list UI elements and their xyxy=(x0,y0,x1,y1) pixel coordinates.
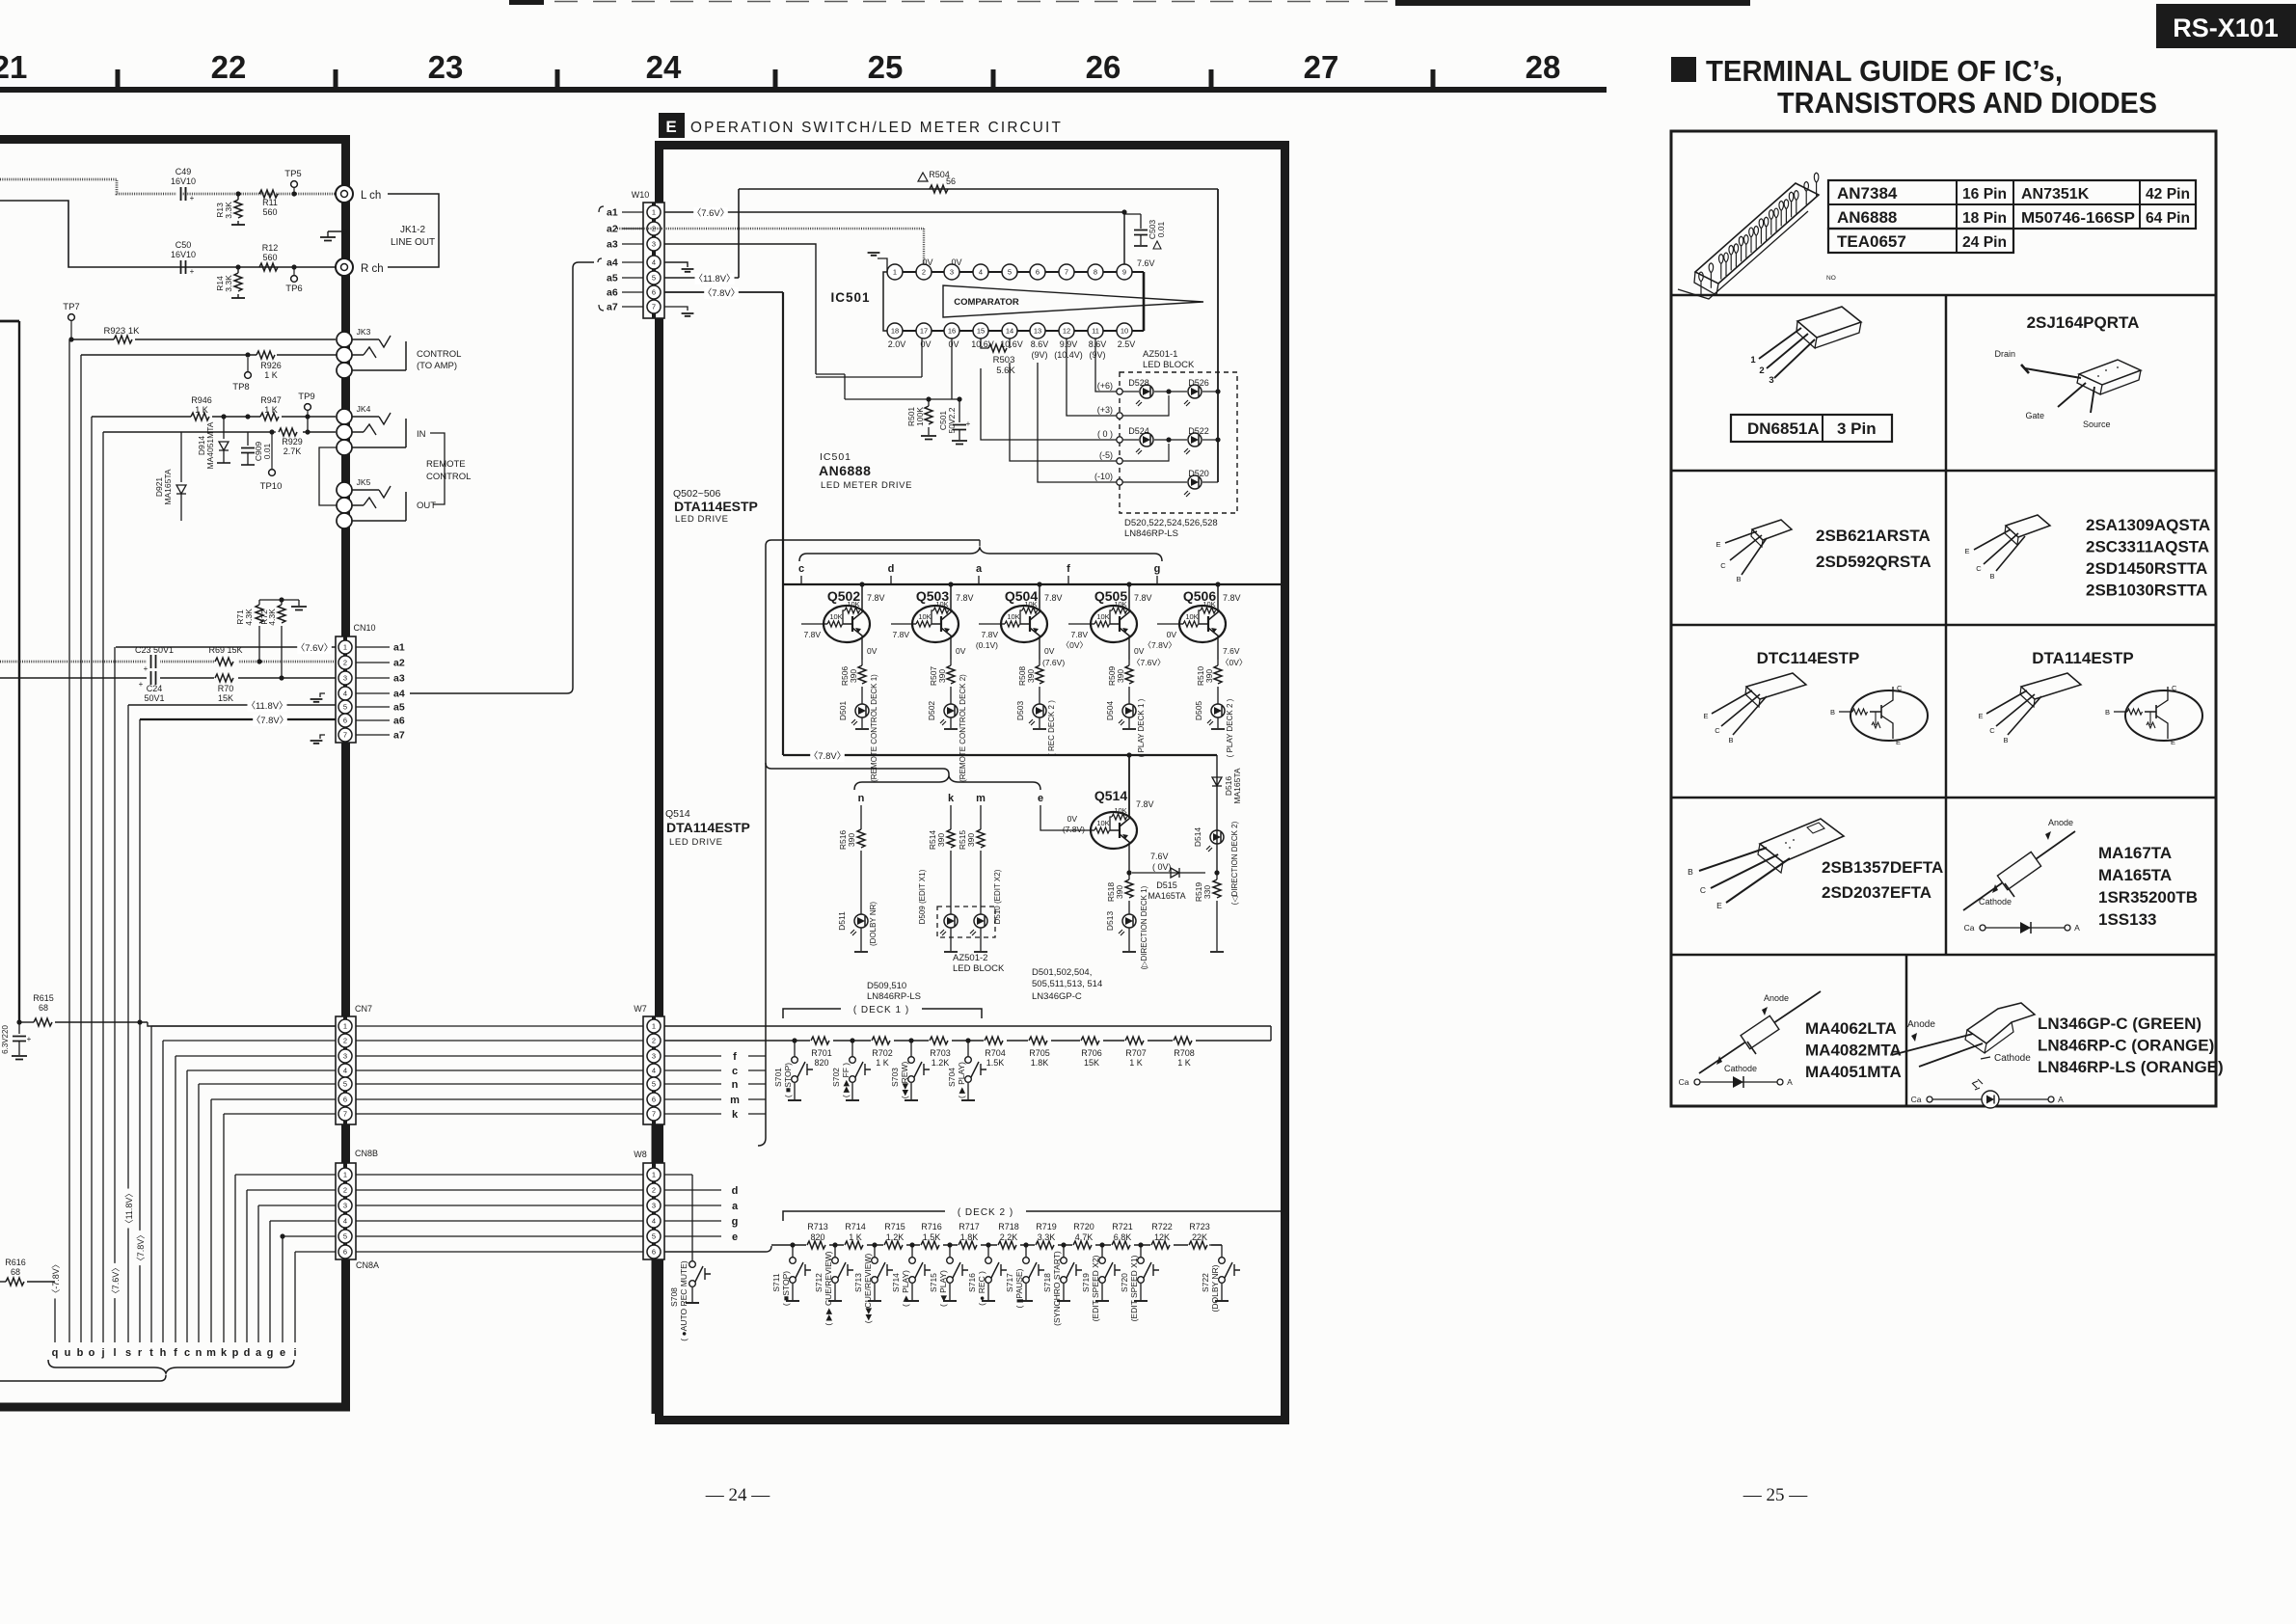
ground near line out xyxy=(320,229,347,240)
svg-text:D504: D504 xyxy=(1105,701,1115,721)
svg-text:( ▮PAUSE): ( ▮PAUSE) xyxy=(1014,1268,1024,1308)
resistor R923 xyxy=(104,326,141,343)
wire W8 heavy down xyxy=(652,1259,657,1414)
IC IC501 AN6888 comparator xyxy=(830,264,1203,338)
wire a3 to CN10 pin3 xyxy=(0,677,337,679)
svg-text:1: 1 xyxy=(343,643,347,652)
svg-text:11: 11 xyxy=(1092,327,1099,336)
LED D504 xyxy=(1105,698,1146,757)
svg-text:23: 23 xyxy=(428,49,464,85)
svg-text:c: c xyxy=(798,563,804,575)
svg-text:16V10: 16V10 xyxy=(171,176,196,186)
resistor R72 xyxy=(259,600,285,678)
svg-text:3.3K: 3.3K xyxy=(1038,1232,1056,1242)
svg-text:7.8V: 7.8V xyxy=(1071,630,1089,639)
svg-text:7.8V: 7.8V xyxy=(1134,593,1152,603)
svg-text:S712: S712 xyxy=(814,1273,824,1292)
svg-text:0V: 0V xyxy=(1067,814,1078,824)
svg-text:( PLAY DECK 2 ): ( PLAY DECK 2 ) xyxy=(1226,698,1234,757)
svg-text:Cathode: Cathode xyxy=(1724,1064,1757,1073)
svg-text:1 K: 1 K xyxy=(1129,1058,1143,1068)
svg-text:C: C xyxy=(1989,726,1995,735)
DIP IC package drawing xyxy=(1678,173,1836,299)
svg-text:560: 560 xyxy=(262,253,277,262)
svg-text:(◀◀CUE/REVIEW): (◀◀CUE/REVIEW) xyxy=(863,1254,873,1324)
letter row q-i xyxy=(52,1347,297,1359)
resistor R926 xyxy=(245,351,281,380)
resistor R715 xyxy=(883,1222,906,1250)
svg-text:12K: 12K xyxy=(1154,1232,1170,1242)
svg-text:22K: 22K xyxy=(1192,1232,1207,1242)
resistor R69 xyxy=(208,645,261,666)
svg-text:R12: R12 xyxy=(262,243,279,253)
svg-text:AZ501-2: AZ501-2 xyxy=(953,953,987,963)
svg-text:10K: 10K xyxy=(918,612,931,621)
wire R71 R72 top with ground xyxy=(259,597,307,609)
svg-text:B: B xyxy=(1728,736,1733,744)
svg-text:LN846RP-LS (ORANGE): LN846RP-LS (ORANGE) xyxy=(2038,1058,2224,1076)
voltage callouts on harness xyxy=(51,1189,147,1299)
svg-text:B: B xyxy=(1989,572,1994,581)
svg-text:B: B xyxy=(1688,867,1693,877)
svg-text:7.6V: 7.6V xyxy=(1137,258,1155,268)
svg-text:R718: R718 xyxy=(998,1222,1019,1232)
svg-text:(10.4V): (10.4V) xyxy=(1054,350,1083,360)
svg-text:〈11.8V〉: 〈11.8V〉 xyxy=(246,701,287,712)
transistor Q504 xyxy=(976,582,1065,667)
svg-text:LN346GP-C (GREEN): LN346GP-C (GREEN) xyxy=(2038,1015,2201,1033)
svg-text:MA4051MTA: MA4051MTA xyxy=(1805,1063,1902,1081)
svg-text:22: 22 xyxy=(211,49,247,85)
svg-text:64 Pin: 64 Pin xyxy=(2146,210,2190,227)
terminal guide title xyxy=(1671,54,2157,120)
harness brace xyxy=(48,1360,294,1373)
svg-text:D510 (EDIT X2): D510 (EDIT X2) xyxy=(993,869,1002,924)
svg-text:S701: S701 xyxy=(773,1068,783,1087)
resistor R704 xyxy=(984,1036,1007,1068)
junction D515 D514 xyxy=(1214,870,1219,875)
svg-text:390: 390 xyxy=(937,669,947,683)
wire emitter bus 7.8V return xyxy=(783,750,1217,762)
svg-text:(EDIT SPEED X1): (EDIT SPEED X1) xyxy=(1129,1255,1139,1321)
svg-text:27: 27 xyxy=(1304,49,1339,85)
svg-text:JK1-2: JK1-2 xyxy=(400,225,426,235)
svg-text:E: E xyxy=(665,118,676,136)
svg-text:a6: a6 xyxy=(607,287,618,299)
jack JK5 xyxy=(337,477,406,528)
wire W10 pin3 route xyxy=(664,244,816,374)
svg-text:MA165TA: MA165TA xyxy=(1232,768,1242,803)
svg-text:C49: C49 xyxy=(176,167,192,176)
svg-text:e: e xyxy=(280,1347,285,1359)
svg-text:+: + xyxy=(139,680,144,689)
svg-text:e: e xyxy=(732,1232,738,1243)
test point TP10 xyxy=(260,432,283,492)
resistor R946 xyxy=(191,395,212,420)
resistor R14 xyxy=(215,264,245,298)
svg-text:s: s xyxy=(125,1347,131,1359)
svg-text:〈7.8V〉: 〈7.8V〉 xyxy=(809,751,847,762)
svg-text:13: 13 xyxy=(1034,327,1041,336)
svg-text:( ▶ PLAY): ( ▶ PLAY) xyxy=(901,1270,910,1307)
wire R504 rail xyxy=(739,188,1218,190)
svg-text:(DOLBY NR): (DOLBY NR) xyxy=(1210,1264,1220,1312)
ground W10 pin7 xyxy=(664,307,693,316)
letters c d a f g xyxy=(798,563,1160,584)
svg-text:8: 8 xyxy=(1094,268,1097,277)
svg-text:(0.1V): (0.1V) xyxy=(976,640,998,650)
resistor R929 xyxy=(279,428,303,456)
wire W7 to W8 heavy link xyxy=(652,1124,657,1163)
svg-text:Ca: Ca xyxy=(1964,923,1975,933)
svg-text:0V: 0V xyxy=(948,339,959,349)
svg-text:TEA0657: TEA0657 xyxy=(1837,232,1906,251)
svg-text:1: 1 xyxy=(893,268,897,277)
resistor R509 xyxy=(1107,660,1133,704)
svg-text:DTC114ESTP: DTC114ESTP xyxy=(1757,649,1860,667)
svg-text:〈-7.8V〉: 〈-7.8V〉 xyxy=(51,1259,61,1298)
switch S722 xyxy=(1201,1245,1240,1312)
svg-text:+: + xyxy=(144,664,149,673)
svg-text:LN346GP-C: LN346GP-C xyxy=(1032,991,1082,1002)
svg-text:a4: a4 xyxy=(393,689,405,700)
svg-text:390: 390 xyxy=(1116,669,1125,683)
svg-text:CONTROL: CONTROL xyxy=(417,349,461,360)
svg-text:(TO AMP): (TO AMP) xyxy=(417,361,457,371)
svg-text:12: 12 xyxy=(1063,327,1070,336)
wire harness tail xyxy=(0,1375,166,1381)
capacitor C24 xyxy=(139,671,165,703)
harness verticals to letter row xyxy=(55,339,295,1342)
svg-text:Anode: Anode xyxy=(2048,818,2073,827)
svg-text:REMOTE: REMOTE xyxy=(426,459,466,470)
svg-text:j: j xyxy=(100,1347,104,1359)
svg-text:6.3V220: 6.3V220 xyxy=(1,1025,10,1054)
switch S718 xyxy=(1042,1242,1082,1325)
svg-text:C: C xyxy=(2172,684,2177,692)
svg-text:( ●AUTO REC MUTE): ( ●AUTO REC MUTE) xyxy=(679,1260,689,1341)
wire 7.8V drop to LED drive rows xyxy=(782,292,784,755)
wire deck2 resistor rail xyxy=(771,1244,1222,1246)
capacitor C49 xyxy=(171,167,196,203)
svg-text:R715: R715 xyxy=(884,1222,905,1232)
test point TP9 xyxy=(298,392,314,420)
svg-text:42 Pin: 42 Pin xyxy=(2146,186,2190,203)
svg-text:MA165TA: MA165TA xyxy=(163,469,173,504)
svg-text:C: C xyxy=(1976,564,1982,573)
wire LED block right bus xyxy=(1217,189,1219,482)
diode MA167TA group cell xyxy=(1963,818,2198,929)
svg-text:CN8B: CN8B xyxy=(355,1149,378,1158)
svg-text:(REMOTE CONTROL DECK 2): (REMOTE CONTROL DECK 2) xyxy=(959,674,967,782)
svg-text:R946: R946 xyxy=(191,395,212,405)
svg-text:1: 1 xyxy=(652,1171,656,1179)
svg-text:a3: a3 xyxy=(607,239,618,251)
svg-text:IC501: IC501 xyxy=(830,290,870,305)
svg-text:16 Pin: 16 Pin xyxy=(1962,186,2007,203)
svg-text:E: E xyxy=(1716,901,1722,910)
svg-text:2: 2 xyxy=(343,1037,347,1045)
resistor R947 xyxy=(260,395,282,420)
LED block input nodes xyxy=(1094,381,1122,485)
svg-text:E: E xyxy=(1964,547,1969,555)
LED D522 xyxy=(1154,426,1221,454)
svg-text:W10: W10 xyxy=(632,190,650,200)
label Q514 device xyxy=(665,808,750,848)
svg-text:2: 2 xyxy=(1759,365,1764,376)
svg-text:2SJ164PQRTA: 2SJ164PQRTA xyxy=(2027,313,2140,332)
svg-text:( ■STOP): ( ■STOP) xyxy=(783,1063,793,1097)
svg-text:MA4082MTA: MA4082MTA xyxy=(1805,1042,1902,1060)
LED D509 xyxy=(940,914,958,952)
wire JK4-JK5 link xyxy=(319,447,337,505)
svg-text:18 Pin: 18 Pin xyxy=(1962,210,2007,227)
svg-text:(+3): (+3) xyxy=(1097,405,1113,415)
svg-text:— 25 —: — 25 — xyxy=(1742,1485,1809,1505)
svg-text:7.6V: 7.6V xyxy=(1223,646,1240,656)
switch S714 xyxy=(891,1242,931,1307)
diode D516 xyxy=(1212,768,1242,803)
svg-text:2SC3311AQSTA: 2SC3311AQSTA xyxy=(2086,538,2209,556)
connector W7 xyxy=(634,1004,664,1124)
svg-text:(7.8V): (7.8V) xyxy=(1063,825,1085,834)
svg-text:R929: R929 xyxy=(282,437,303,447)
LED D511 xyxy=(837,902,878,952)
resistor R514 xyxy=(928,805,955,914)
svg-text:7: 7 xyxy=(343,1110,347,1119)
svg-text:NO: NO xyxy=(1826,275,1836,282)
svg-text:2SD1450RSTTA: 2SD1450RSTTA xyxy=(2086,559,2207,578)
svg-text:AN7384: AN7384 xyxy=(1837,184,1898,203)
LED block AZ501-1 label xyxy=(1143,349,1195,370)
svg-text:D524: D524 xyxy=(1128,426,1149,436)
svg-text:R503: R503 xyxy=(993,355,1015,365)
svg-text:4: 4 xyxy=(652,1217,656,1226)
wire heavy feed upper left xyxy=(0,320,19,323)
svg-text:( ■STOP): ( ■STOP) xyxy=(781,1271,791,1306)
svg-text:( DECK 1 ): ( DECK 1 ) xyxy=(853,1005,909,1015)
wire brace feed xyxy=(758,540,980,1146)
svg-text:6.8K: 6.8K xyxy=(1114,1232,1132,1242)
wire R926 net xyxy=(81,354,337,356)
svg-text:IN: IN xyxy=(417,429,426,440)
svg-text:+: + xyxy=(27,1035,32,1043)
svg-text:1: 1 xyxy=(652,208,656,217)
svg-text:k: k xyxy=(948,793,955,804)
svg-text:10: 10 xyxy=(1121,327,1128,336)
wire meter segment nets to LED block xyxy=(981,338,1117,482)
svg-text:Ca: Ca xyxy=(1911,1095,1922,1104)
svg-text:Q514: Q514 xyxy=(1094,788,1127,803)
svg-text:COMPARATOR: COMPARATOR xyxy=(954,297,1019,308)
svg-text:6: 6 xyxy=(1036,268,1040,277)
svg-text:S714: S714 xyxy=(891,1273,901,1292)
svg-text:d: d xyxy=(888,563,895,575)
CN8B wires left xyxy=(235,1175,336,1252)
svg-text:390: 390 xyxy=(1026,669,1036,683)
svg-text:Anode: Anode xyxy=(1764,993,1789,1003)
LED block AZ501-2 dashed box xyxy=(937,907,995,937)
svg-text:10K: 10K xyxy=(1096,819,1109,827)
LED D528 xyxy=(1122,378,1153,406)
svg-text:OPERATION SWITCH/LED METER CIR: OPERATION SWITCH/LED METER CIRCUIT xyxy=(690,120,1063,136)
svg-text:0V: 0V xyxy=(951,257,961,267)
svg-text:MA4062LTA: MA4062LTA xyxy=(1805,1019,1897,1038)
wire W8 pin6 to deck2 rail xyxy=(664,1246,771,1252)
diode symbol Ca-A row F xyxy=(1679,1076,1794,1088)
svg-text:7.8V: 7.8V xyxy=(893,630,910,639)
resistor R504 xyxy=(918,170,956,193)
svg-text:a: a xyxy=(732,1201,739,1212)
svg-text:0V: 0V xyxy=(1167,630,1177,639)
resistor R506 xyxy=(840,660,866,704)
svg-text:R714: R714 xyxy=(845,1222,866,1232)
svg-text:a2: a2 xyxy=(393,658,405,669)
wire 11.8V from W10 pin5 xyxy=(664,189,739,284)
wire R-ch input xyxy=(0,201,336,267)
svg-text:B: B xyxy=(1830,708,1835,717)
wire collector bus 7.8V xyxy=(783,583,1284,585)
svg-text:2SB621ARSTA: 2SB621ARSTA xyxy=(1816,527,1931,545)
transistor Q505 xyxy=(1062,582,1166,667)
resistor R707 xyxy=(1124,1036,1148,1068)
CN7 wires left xyxy=(151,1026,336,1114)
svg-text:4.3K: 4.3K xyxy=(267,609,277,626)
svg-text:〈0V〉: 〈0V〉 xyxy=(1221,658,1247,667)
svg-text:( ▶ PLAY): ( ▶ PLAY) xyxy=(957,1062,966,1098)
LED D510 xyxy=(970,914,987,952)
svg-text:1SS133: 1SS133 xyxy=(2098,910,2157,929)
svg-text:390: 390 xyxy=(1115,885,1124,899)
svg-text:〈7.8V〉: 〈7.8V〉 xyxy=(703,288,741,299)
svg-text:(SYNCHRO START): (SYNCHRO START) xyxy=(1052,1251,1062,1326)
capacitor C909 xyxy=(241,432,272,465)
svg-text:1 K: 1 K xyxy=(264,405,278,415)
svg-text:TP5: TP5 xyxy=(284,169,301,179)
svg-text:LN846RP-LS: LN846RP-LS xyxy=(1124,528,1178,539)
svg-text:u: u xyxy=(65,1347,71,1359)
wire JK4 row xyxy=(92,414,336,419)
svg-text:E: E xyxy=(2171,738,2175,746)
svg-text:0V: 0V xyxy=(922,257,932,267)
capacitor C503 xyxy=(1124,214,1166,249)
LED D520 xyxy=(1122,469,1218,497)
svg-text:7.8V: 7.8V xyxy=(1044,593,1063,603)
svg-text:560: 560 xyxy=(262,207,277,217)
svg-text:10K: 10K xyxy=(935,600,948,609)
svg-text:R702: R702 xyxy=(872,1048,893,1058)
jack R ch xyxy=(336,258,384,276)
svg-text:a1: a1 xyxy=(607,207,618,219)
resistor R722 xyxy=(1150,1222,1174,1250)
svg-text:9.9V: 9.9V xyxy=(1060,339,1078,349)
ruler scrap marks top edge xyxy=(509,0,544,5)
svg-text:390: 390 xyxy=(849,669,858,683)
svg-text:L ch: L ch xyxy=(361,190,381,202)
svg-text:1.8K: 1.8K xyxy=(1031,1058,1049,1068)
svg-text:f: f xyxy=(1067,563,1070,575)
svg-text:390: 390 xyxy=(936,833,946,847)
svg-text:330: 330 xyxy=(1202,885,1212,899)
svg-text:( REC DECK 2 ): ( REC DECK 2 ) xyxy=(1047,700,1056,756)
W10 net labels a1-a7 xyxy=(598,206,643,313)
ribbon CN7 to W7 xyxy=(356,1026,643,1114)
svg-text:2: 2 xyxy=(652,1037,656,1045)
svg-text:B: B xyxy=(2003,736,2008,744)
svg-text:5: 5 xyxy=(343,1080,347,1089)
svg-text:Drain: Drain xyxy=(1994,349,2015,359)
svg-text:7.8V: 7.8V xyxy=(867,593,885,603)
test point TP8 xyxy=(232,358,251,392)
resistor R518 xyxy=(1106,873,1133,914)
svg-text:R713: R713 xyxy=(807,1222,828,1232)
ground IC501 pin1 xyxy=(868,253,887,272)
svg-text:15: 15 xyxy=(977,327,985,336)
svg-text:1 K: 1 K xyxy=(876,1058,889,1068)
svg-text:7.8V: 7.8V xyxy=(982,630,999,639)
svg-text:CN8A: CN8A xyxy=(356,1260,379,1270)
svg-text:24: 24 xyxy=(646,49,682,85)
switch S711 xyxy=(771,1242,811,1306)
svg-text:16: 16 xyxy=(948,327,956,336)
svg-text:d: d xyxy=(244,1347,251,1359)
svg-text:LED BLOCK: LED BLOCK xyxy=(1143,360,1195,370)
svg-text:R701: R701 xyxy=(811,1048,832,1058)
svg-text:8.6V: 8.6V xyxy=(1089,339,1107,349)
svg-text:1.8K: 1.8K xyxy=(960,1232,979,1242)
wire 7.6V to CN10 pin1 xyxy=(116,642,337,654)
svg-text:3: 3 xyxy=(343,1052,347,1061)
svg-text:10K: 10K xyxy=(1007,612,1019,621)
switch S703 xyxy=(890,1038,930,1100)
svg-text:TRANSISTORS AND DIODES: TRANSISTORS AND DIODES xyxy=(1777,86,2157,120)
svg-text:M50746-166SP: M50746-166SP xyxy=(2021,210,2135,227)
svg-text:MA165TA: MA165TA xyxy=(2098,866,2172,884)
svg-text:TP7: TP7 xyxy=(63,302,79,312)
LED package LN346GP cell xyxy=(1892,1003,2224,1076)
svg-text:R705: R705 xyxy=(1029,1048,1050,1058)
svg-text:2SB1030RSTTA: 2SB1030RSTTA xyxy=(2086,582,2207,600)
svg-text:1.2K: 1.2K xyxy=(932,1058,950,1068)
svg-text:0.01: 0.01 xyxy=(262,443,272,459)
svg-text:q: q xyxy=(52,1347,59,1359)
IC501 top voltage labels xyxy=(922,257,1154,268)
svg-text:390: 390 xyxy=(966,833,976,847)
wire D516 branch xyxy=(1216,755,1218,873)
CN10 ground pin4 pin7 xyxy=(311,693,325,744)
svg-text:10K: 10K xyxy=(1114,806,1126,815)
svg-text:14: 14 xyxy=(1006,327,1013,336)
svg-text:( ▶▶ FF ): ( ▶▶ FF ) xyxy=(841,1063,851,1097)
svg-text:2.5V: 2.5V xyxy=(1118,339,1136,349)
resistor R11 xyxy=(259,190,278,217)
svg-text:Cathode: Cathode xyxy=(1979,897,2012,907)
svg-text:2SD2037EFTA: 2SD2037EFTA xyxy=(1822,883,1931,902)
svg-text:3: 3 xyxy=(652,240,656,249)
svg-text:21: 21 xyxy=(0,49,27,85)
svg-text:10K: 10K xyxy=(1114,600,1126,609)
transistor DTC114ESTP cell xyxy=(1703,649,1928,746)
svg-text:S703: S703 xyxy=(890,1068,900,1087)
svg-text:3: 3 xyxy=(343,1202,347,1210)
svg-text:18: 18 xyxy=(891,327,899,336)
svg-text:A: A xyxy=(2074,923,2080,933)
svg-text:R11: R11 xyxy=(262,198,278,207)
capacitor C50 xyxy=(171,240,196,276)
resistor R503 xyxy=(981,338,1015,376)
svg-text:9: 9 xyxy=(1122,268,1126,277)
svg-text:a4: a4 xyxy=(607,257,618,269)
